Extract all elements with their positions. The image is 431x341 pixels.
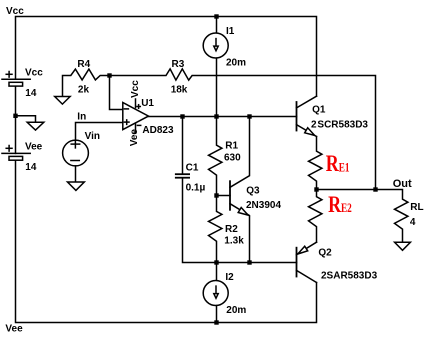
svg-text:2k: 2k xyxy=(78,84,90,95)
svg-text:Q1: Q1 xyxy=(312,105,326,116)
svg-text:2SAR583D3: 2SAR583D3 xyxy=(321,271,378,282)
svg-text:Vcc: Vcc xyxy=(130,80,141,98)
svg-text:2N3904: 2N3904 xyxy=(246,200,281,211)
svg-text:Q3: Q3 xyxy=(246,185,260,196)
svg-text:Vee: Vee xyxy=(5,324,23,335)
svg-text:14: 14 xyxy=(25,162,37,173)
svg-text:E2: E2 xyxy=(341,200,352,215)
svg-text:R3: R3 xyxy=(172,59,185,70)
svg-text:Vcc: Vcc xyxy=(6,6,24,17)
svg-text:2 SCR583D3: 2 SCR583D3 xyxy=(311,119,368,130)
svg-text:E1: E1 xyxy=(339,159,350,174)
svg-text:Out: Out xyxy=(393,178,412,190)
svg-text:C1: C1 xyxy=(186,162,199,173)
svg-text:I2: I2 xyxy=(225,272,234,283)
svg-text:Vee: Vee xyxy=(129,129,140,147)
svg-text:20m: 20m xyxy=(226,58,246,69)
svg-text:R: R xyxy=(328,192,341,217)
svg-text:Q2: Q2 xyxy=(318,247,332,258)
svg-text:I1: I1 xyxy=(226,26,235,37)
svg-text:Vin: Vin xyxy=(85,131,100,142)
svg-text:630: 630 xyxy=(224,152,241,163)
svg-text:1.3k: 1.3k xyxy=(224,236,244,247)
svg-text:Vee: Vee xyxy=(25,141,43,152)
svg-text:14: 14 xyxy=(25,88,37,99)
svg-text:Vcc: Vcc xyxy=(25,67,43,78)
svg-text:R: R xyxy=(326,151,339,176)
svg-text:AD823: AD823 xyxy=(142,125,174,136)
svg-text:20m: 20m xyxy=(226,305,246,316)
svg-text:R4: R4 xyxy=(77,59,90,70)
svg-text:RL: RL xyxy=(410,202,423,213)
svg-text:4: 4 xyxy=(410,217,416,228)
svg-text:R1: R1 xyxy=(225,140,238,151)
svg-text:18k: 18k xyxy=(171,84,188,95)
svg-text:In: In xyxy=(77,112,86,123)
svg-text:U1: U1 xyxy=(141,98,154,109)
svg-text:R2: R2 xyxy=(225,224,238,235)
svg-text:0.1µ: 0.1µ xyxy=(186,182,206,193)
